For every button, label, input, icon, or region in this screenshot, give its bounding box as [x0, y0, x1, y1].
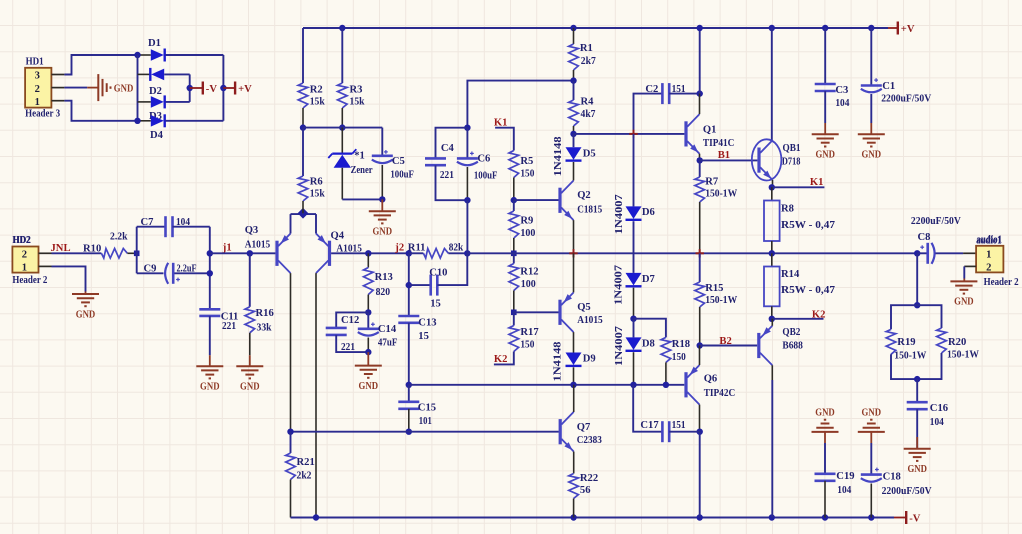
resistor R6 15k — [298, 176, 308, 201]
wire R5 to junction — [513, 178, 515, 201]
audio1 pin 2 to GND — [964, 265, 976, 267]
node junction C2/Q1 collector — [697, 90, 703, 96]
svg-text:C2383: C2383 — [577, 435, 602, 446]
wire D4 cathode to +V column — [166, 120, 224, 122]
capacitor C6 100uF — [466, 128, 468, 159]
wire j1 to Q3 base — [210, 252, 276, 254]
wire R15 to B2 junction — [699, 307, 701, 346]
wire R1R4 junction to C4C6 — [467, 81, 573, 128]
wire D2 cathode to -V column — [166, 101, 190, 103]
node junction R4/D5/Q1base — [570, 131, 576, 137]
capacitor C4 221 — [425, 157, 446, 160]
ground GND below C11 — [209, 355, 211, 366]
node junction R3/zener — [339, 124, 345, 130]
wire zener to C5 bottom row — [342, 198, 382, 200]
capacitor C19 104 — [815, 472, 836, 475]
node junction R14/K2/QB2emitter — [769, 316, 775, 322]
wire C5 column top — [381, 128, 383, 156]
wire Q1 emitter down — [699, 154, 701, 161]
wire D6 column from cross — [633, 134, 635, 207]
transistor Q5 A1015 — [558, 300, 561, 325]
connector audio1 (Header 2) — [976, 246, 1003, 273]
resistor R14 R5W-0,47 (rect) — [771, 253, 773, 266]
svg-text:C19: C19 — [836, 471, 854, 482]
wire junction to R18 top — [634, 319, 666, 338]
wire y385 row — [409, 384, 685, 386]
node junction R9/R12 on rail — [511, 251, 517, 257]
wire QB1 emitter to K1 junction — [772, 180, 774, 187]
svg-text:C5: C5 — [392, 156, 405, 167]
svg-text:100: 100 — [521, 279, 536, 290]
svg-text:15k: 15k — [310, 189, 325, 200]
wire R19 loop bottom — [891, 354, 917, 379]
capacitor C13 15 — [398, 315, 419, 318]
node junction R12/R17/Q5base — [511, 310, 517, 316]
wire C9 row right — [175, 272, 210, 274]
svg-text:R22: R22 — [580, 473, 598, 484]
resistor R19 150-1W — [886, 329, 896, 354]
resistor R7 150-1W — [699, 160, 701, 177]
HD1 pin 2 — [51, 87, 64, 89]
node junction D9 row385 — [570, 382, 576, 388]
wire HD2 pin1 to GND — [39, 265, 52, 267]
node junction B2 — [697, 342, 703, 348]
svg-text:R3: R3 — [350, 85, 363, 96]
wire R16 column — [249, 253, 251, 306]
svg-text:B688: B688 — [782, 340, 803, 351]
svg-text:Q5: Q5 — [577, 302, 591, 313]
wire +V column — [222, 55, 224, 121]
svg-text:D4: D4 — [150, 130, 164, 141]
ground GND below C5 — [381, 199, 383, 211]
capacitor C10 15 — [429, 275, 432, 296]
node junction C3 rail — [822, 25, 828, 31]
node junction C9 right — [207, 270, 213, 276]
resistor R21 2k2 — [290, 432, 292, 453]
svg-text:QB2: QB2 — [782, 327, 800, 338]
resistor R13 820 — [364, 268, 374, 295]
svg-text:2: 2 — [35, 84, 40, 95]
wire C1 column — [870, 28, 872, 86]
wire rail down to R3 — [341, 28, 343, 83]
svg-text:C1: C1 — [882, 81, 895, 92]
svg-text:D1: D1 — [148, 38, 161, 49]
wire R6 column — [302, 128, 304, 176]
wire to Q5 base — [514, 311, 559, 313]
wire C9 row left — [137, 272, 164, 274]
wire C2 left leg — [634, 94, 663, 135]
svg-text:2k7: 2k7 — [581, 56, 597, 67]
resistor R1 2k7 — [569, 44, 579, 70]
svg-text:Header 2: Header 2 — [12, 275, 47, 286]
wire output rail y253 — [467, 252, 917, 254]
node junction R22 rail — [570, 514, 576, 520]
ground GND below R16 — [249, 355, 251, 366]
diode D8 1N4007 — [633, 319, 635, 338]
HD1 pin 3 — [51, 74, 64, 76]
svg-text:D6: D6 — [642, 207, 655, 218]
wire C7 row right — [173, 226, 210, 228]
svg-text:C6: C6 — [477, 153, 490, 164]
wire C4 loop bottom — [436, 165, 468, 200]
node junction R2/R6 — [300, 124, 306, 130]
svg-text:B1: B1 — [718, 150, 730, 161]
wire R11 right to junction — [448, 252, 467, 254]
svg-text:Q7: Q7 — [577, 422, 591, 433]
wire C6 bottom — [466, 167, 468, 200]
capacitor C17 151 — [661, 421, 664, 442]
wire D9 to junction385 — [573, 367, 575, 385]
transistor Q1 TIP41C — [684, 121, 687, 146]
svg-text:47uF: 47uF — [378, 338, 398, 349]
wire C19 to rail — [824, 481, 826, 518]
wire GND to C19 — [824, 443, 826, 474]
transistor Q7 C2383 — [559, 419, 562, 444]
svg-text:R5W - 0,47: R5W - 0,47 — [781, 220, 836, 231]
svg-text:audio1: audio1 — [976, 235, 1002, 246]
svg-text:GND: GND — [373, 227, 393, 238]
svg-text:C16: C16 — [930, 403, 948, 414]
power -V port bottom — [894, 517, 905, 519]
svg-text:GND: GND — [359, 381, 379, 392]
wire C12 loop bottom — [336, 335, 368, 352]
wire QB2 collector down — [771, 365, 773, 380]
svg-text:104: 104 — [837, 485, 852, 496]
svg-text:104: 104 — [930, 417, 945, 428]
svg-text:R4: R4 — [581, 96, 595, 107]
transistor Q3 A1015 — [275, 241, 278, 266]
node junction R10/C7/C9 — [134, 251, 140, 257]
svg-text:1N4007: 1N4007 — [613, 264, 624, 305]
node junction Q3col/R21 — [287, 429, 293, 435]
ground GND below C14 — [367, 352, 369, 365]
wire R14 to K2 junction — [771, 306, 773, 319]
node junction D8 row385 — [630, 382, 636, 388]
svg-text:R21: R21 — [297, 457, 315, 468]
svg-text:Zener: Zener — [351, 165, 373, 176]
wire y431 row Q3 collector to Q7 base — [291, 431, 559, 433]
wire C17 left leg — [633, 385, 662, 432]
wire Q4 base to R13 — [331, 252, 409, 254]
svg-text:GND: GND — [76, 309, 96, 320]
wire emitter bus — [291, 213, 317, 215]
svg-text:GND: GND — [954, 297, 974, 308]
svg-text:TIP41C: TIP41C — [703, 138, 735, 149]
wire C17 right leg — [669, 431, 700, 433]
svg-text:D718: D718 — [782, 156, 801, 167]
wire R20 loop bottom — [917, 353, 941, 379]
wire R13 column — [367, 253, 369, 267]
svg-text:R1: R1 — [580, 43, 593, 54]
wire Q5 collector to D9 — [573, 332, 575, 352]
svg-text:56: 56 — [580, 485, 591, 496]
wire R17 to K2 stub — [494, 352, 514, 365]
svg-text:Q3: Q3 — [245, 225, 259, 236]
wire GND to C18 — [870, 443, 872, 475]
wire Q7 emitter down to R22 — [573, 452, 575, 474]
node junction Q1 column rail — [697, 25, 703, 31]
resistor R22 56 — [569, 474, 579, 499]
wire R3 bottom to junction — [341, 108, 343, 128]
wire Q4 emitter up — [315, 214, 317, 233]
ground GND below audio1 — [963, 279, 965, 282]
capacitor C7 104 — [164, 216, 167, 237]
transistor QB1 D718 — [752, 139, 782, 180]
wire R10 to junction — [127, 252, 136, 254]
svg-text:1: 1 — [35, 97, 40, 108]
wire R1 to junction — [573, 70, 575, 81]
wire junction row to C5 — [303, 127, 382, 129]
wire C15 down — [408, 409, 410, 432]
connector HD1 (Header 3) — [25, 68, 51, 108]
svg-text:C14: C14 — [378, 324, 397, 335]
node junction R19R20 top — [914, 302, 920, 308]
svg-text:15k: 15k — [310, 97, 325, 108]
capacitor C14 47uF — [367, 312, 369, 328]
svg-text:1: 1 — [22, 263, 27, 274]
svg-text:R5W - 0,47: R5W - 0,47 — [781, 285, 836, 296]
svg-text:C4: C4 — [441, 143, 455, 154]
wire -V bottom rail — [291, 517, 895, 519]
node red cross R7/R15 on rail — [696, 249, 704, 257]
capacitor C18 2200uF/50V — [861, 473, 882, 476]
ground GND above C18 (inverted) — [858, 420, 885, 432]
svg-text:Q4: Q4 — [331, 230, 345, 241]
node junction R6 bottom (diamond) — [298, 208, 309, 219]
node junction C14/GND — [365, 349, 371, 355]
wire C13 down to junction — [408, 323, 410, 385]
diode D5 1N4148 — [573, 134, 575, 147]
svg-text:C15: C15 — [418, 403, 436, 414]
svg-text:R16: R16 — [256, 308, 274, 319]
svg-text:GND: GND — [862, 150, 882, 161]
resistor R10 2.2k — [101, 249, 127, 259]
transistor Q4 A1015 — [328, 241, 331, 266]
svg-text:R13: R13 — [375, 272, 393, 283]
connector HD2 (Header 2) — [12, 247, 38, 273]
svg-text:150-1W: 150-1W — [947, 350, 979, 361]
zener diode *1 — [341, 128, 343, 154]
resistor R3 15k — [338, 83, 348, 108]
wire C3 column — [824, 28, 826, 84]
node junction C1 rail — [868, 25, 874, 31]
svg-text:15: 15 — [430, 299, 441, 310]
svg-text:R18: R18 — [672, 339, 690, 350]
wire R13 to junction — [367, 295, 369, 313]
svg-text:D2: D2 — [149, 86, 162, 97]
wire D7 to junction — [633, 288, 635, 319]
svg-text:Q6: Q6 — [704, 373, 718, 384]
node junction Q6col/C17 — [697, 429, 703, 435]
svg-text:150-1W: 150-1W — [705, 295, 737, 306]
node junction C15 bottom — [406, 429, 412, 435]
wire Q6 collector to rail — [699, 432, 701, 518]
svg-text:Q2: Q2 — [577, 190, 591, 201]
node junction C4/C6 bottom — [464, 197, 470, 203]
svg-text:GND: GND — [114, 84, 134, 95]
ground GND below C1 — [870, 123, 872, 134]
wire QB2 emitter up — [771, 319, 773, 326]
svg-text:100uF: 100uF — [390, 169, 414, 180]
svg-text:33k: 33k — [257, 322, 272, 333]
svg-text:A1015: A1015 — [245, 239, 271, 250]
resistor R9 100 — [513, 200, 515, 211]
wire C2 right to Q1 collector column — [669, 93, 700, 95]
svg-text:GND: GND — [240, 382, 260, 393]
svg-text:GND: GND — [862, 407, 882, 418]
resistor R5 150 — [509, 151, 519, 178]
svg-text:150: 150 — [672, 352, 686, 363]
wire R18 to junction385 — [665, 362, 667, 384]
svg-text:C12: C12 — [341, 315, 359, 326]
wire C1 to GND — [870, 94, 872, 123]
svg-text:+V: +V — [901, 24, 915, 35]
node junction output/C8 — [914, 250, 920, 256]
svg-text:-V: -V — [909, 514, 921, 525]
wire R21 to bottom rail — [290, 480, 292, 518]
diode D7 1N4007 — [626, 273, 642, 286]
resistor R17 150 — [513, 312, 515, 325]
svg-text:GND: GND — [815, 150, 835, 161]
resistor R2 15k — [298, 83, 308, 108]
node junction QB2 collector rail — [769, 514, 775, 520]
wire output down to R19/R20 — [916, 253, 918, 305]
svg-text:1N4007: 1N4007 — [614, 325, 625, 366]
node junction QB1emitter/K1/R8 — [769, 184, 775, 190]
node junction C13/C15/wire385 — [406, 382, 412, 388]
wire right column of C7/C9 — [209, 227, 211, 310]
svg-text:2.2k: 2.2k — [110, 232, 128, 243]
diode D9 1N4148 — [566, 353, 582, 366]
node junction Q4 collector rail — [313, 514, 319, 520]
capacitor C1 2200uF/50V — [861, 84, 882, 87]
resistor R18 150 — [661, 337, 671, 362]
ground GND below C16 — [916, 437, 918, 449]
svg-text:+V: +V — [238, 84, 252, 95]
wire C14 bottom — [367, 338, 369, 353]
svg-text:j1: j1 — [222, 243, 232, 254]
svg-text:221: 221 — [222, 321, 236, 332]
node junction D7/D8/R18 — [630, 316, 636, 322]
svg-text:QB1: QB1 — [783, 143, 801, 154]
svg-text:2: 2 — [986, 263, 991, 274]
svg-text:D8: D8 — [642, 338, 655, 349]
svg-text:JNL: JNL — [51, 243, 71, 254]
svg-text:K1: K1 — [494, 117, 508, 128]
node junction R13/C12/C14 — [365, 309, 371, 315]
wire D1 cathode to +V column — [166, 54, 224, 56]
svg-text:2: 2 — [22, 250, 27, 261]
power +V port top — [888, 27, 897, 29]
wire Q4 collector down — [315, 273, 317, 517]
wire R2 to junction row — [302, 108, 304, 128]
node junction C19 rail — [822, 514, 828, 520]
svg-text:150: 150 — [520, 339, 534, 350]
svg-text:3: 3 — [35, 71, 40, 82]
svg-text:-V: -V — [206, 84, 218, 95]
diode D4 — [138, 120, 151, 122]
wire C5 bottom — [381, 165, 383, 199]
svg-text:K2: K2 — [494, 354, 508, 365]
node junction D4 anode — [134, 118, 140, 124]
svg-text:C13: C13 — [418, 317, 436, 328]
node junction R11/C10/C4C6 — [464, 250, 470, 256]
capacitor C8 2200uF/50V — [917, 252, 927, 254]
wire K1 stub right — [772, 186, 825, 188]
node junction Q4 base/R13 — [365, 250, 371, 256]
svg-text:GND: GND — [907, 464, 927, 475]
wire Q7 collector up — [573, 385, 575, 412]
wire j2 column down — [408, 253, 410, 316]
svg-text:4k7: 4k7 — [581, 109, 597, 120]
svg-text:820: 820 — [376, 287, 391, 298]
svg-text:TIP42C: TIP42C — [704, 388, 736, 399]
svg-text:*1: *1 — [354, 150, 365, 161]
HD1 pin 1 — [51, 100, 64, 102]
wire pin3 to D1 row — [64, 55, 137, 75]
wire rail to R1 — [573, 28, 575, 44]
node junction Q6 collector rail — [697, 514, 703, 520]
svg-text:j2: j2 — [394, 243, 404, 254]
node junction R19R20 bottom — [914, 376, 920, 382]
svg-text:C18: C18 — [883, 471, 901, 482]
wire R20 loop top — [917, 305, 941, 328]
svg-text:R11: R11 — [408, 243, 426, 254]
ground GND at HD1 pin2 — [87, 87, 98, 89]
svg-text:1N4007: 1N4007 — [614, 193, 625, 234]
svg-text:C7: C7 — [141, 217, 155, 228]
resistor R12 100 — [513, 253, 515, 263]
node junction D1 anode — [134, 52, 140, 58]
svg-text:221: 221 — [440, 170, 454, 181]
node junction QB1 collector rail — [769, 25, 775, 31]
svg-text:Header 2: Header 2 — [984, 277, 1019, 288]
svg-text:C17: C17 — [640, 420, 659, 431]
svg-text:C10: C10 — [429, 267, 447, 278]
wire zener bottom — [341, 168, 343, 200]
svg-text:GND: GND — [200, 382, 220, 393]
svg-text:15k: 15k — [350, 97, 365, 108]
svg-text:Q1: Q1 — [703, 124, 717, 135]
node junction C10 left — [406, 282, 412, 288]
power -V port — [187, 85, 193, 91]
svg-text:2k2: 2k2 — [297, 470, 312, 481]
wire C18 to rail — [870, 484, 872, 518]
svg-text:100uF: 100uF — [474, 171, 498, 182]
diode D3 (left pointing) — [138, 73, 152, 75]
node junction C7/C9 right top — [207, 250, 213, 256]
node junction j2 — [406, 250, 412, 256]
wire R12 to junction — [513, 291, 515, 313]
transistor Q2 C1815 — [558, 188, 561, 213]
ground GND above C19 (inverted) — [812, 420, 839, 432]
wire C7 row left — [137, 226, 166, 228]
wire to Q2 base — [514, 199, 559, 201]
diode D2 — [138, 101, 151, 103]
resistor R8 R5W-0,47 (rect) — [771, 187, 773, 200]
svg-text:R2: R2 — [310, 85, 323, 96]
svg-text:A1015: A1015 — [577, 315, 603, 326]
wire Q2 emitter down to cross — [573, 220, 575, 253]
node junction R3 top rail — [339, 25, 345, 31]
svg-text:HD2: HD2 — [12, 235, 30, 246]
node junction R1 top rail — [570, 25, 576, 31]
svg-text:R20: R20 — [948, 337, 966, 348]
node junction R16 column — [247, 250, 253, 256]
wire D8 to junction385 — [633, 352, 635, 385]
svg-text:R14: R14 — [781, 269, 800, 280]
node red cross Q2/Q5 emitters on rail — [569, 249, 577, 257]
